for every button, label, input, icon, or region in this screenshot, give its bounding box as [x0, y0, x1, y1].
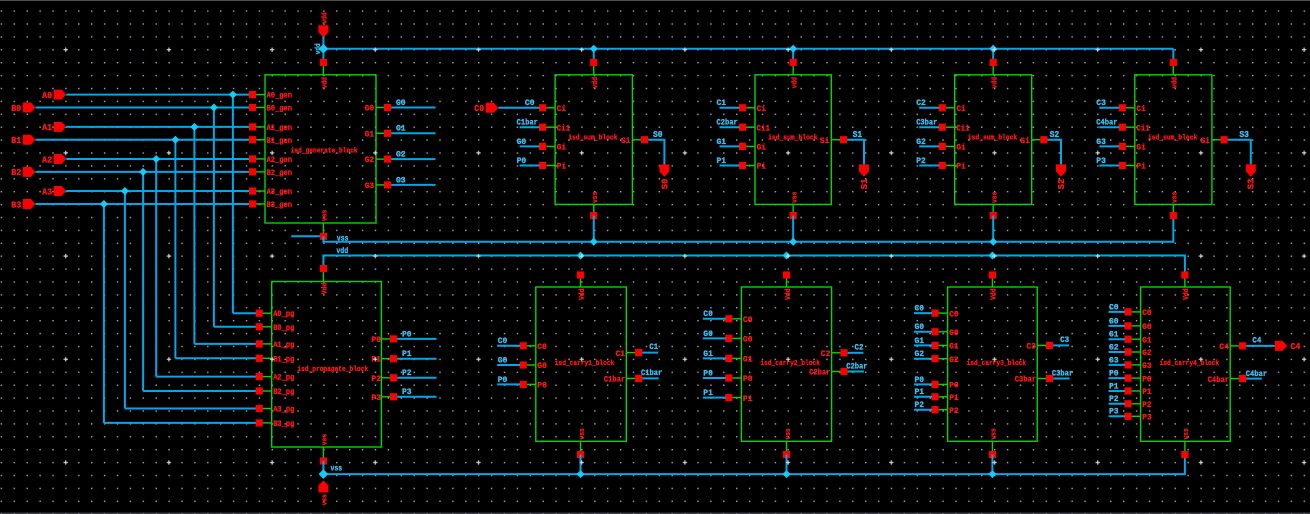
pin C4 of carry4: [1230, 345, 1239, 347]
junction bottom vss rail / carry2: [783, 470, 791, 478]
wire net G2 stub into carry3: [914, 358, 932, 360]
junction vdd rail / sum block 1: [590, 45, 598, 53]
pin C3 of carry3: [1037, 344, 1046, 346]
wire net B1 into B1_pg pin: [175, 357, 256, 359]
pin vss of propagate block: [322, 447, 324, 461]
block isd_carry3_block outline: [948, 287, 1038, 441]
pin G0 of carry2: [732, 337, 741, 339]
pin A3_pg: [259, 408, 272, 410]
junction vdd rail / carry3: [988, 252, 996, 260]
wire net C3 stub: [1053, 344, 1069, 346]
pin Gi of sum block 1: [546, 145, 555, 147]
pin A3_gen: [253, 190, 265, 192]
pin vss of carry4: [1184, 441, 1186, 454]
pin G1 of carry4: [1132, 338, 1141, 340]
pin B0_gen: [253, 107, 265, 109]
wire net B0 vertical to propagate block: [213, 108, 215, 327]
pin vdd of sum block 1: [593, 62, 595, 74]
junction bottom vss rail / carry3: [988, 470, 996, 478]
wire net C1 stub into sum block 2: [720, 107, 740, 109]
wire net A3 into A3_pg pin: [125, 408, 257, 410]
pin Si of sum block 3: [1032, 139, 1041, 141]
pin P0 of carry3: [939, 383, 948, 385]
pin G3 of generate block: [376, 184, 388, 186]
pin Ci1 of sum block 4: [1126, 126, 1135, 128]
wire net A0 horizontal: [66, 94, 249, 96]
pin C1 of carry1: [626, 352, 635, 354]
pin vss of sum block 4: [1172, 204, 1174, 215]
wire net A2 vertical to propagate block: [155, 159, 157, 377]
pin Si of sum block 2: [831, 139, 840, 141]
pin Pi of sum block 4: [1126, 165, 1135, 167]
wire net P0 stub: [397, 338, 436, 340]
input terminal B1: [23, 135, 36, 145]
input terminal B0: [23, 103, 36, 113]
output terminal C4: [1275, 341, 1288, 351]
pin Ci1 of sum block 3: [946, 126, 955, 128]
pin B2_gen: [253, 171, 265, 173]
pin P0 of carry4: [1132, 377, 1141, 379]
pin G0 of generate block: [376, 107, 388, 109]
wire net G1 stub into carry2: [703, 357, 726, 359]
wire net B0 into B0_pg pin: [214, 326, 257, 328]
pin A1_pg: [259, 343, 272, 345]
pin C0 of carry1: [527, 345, 536, 347]
pin vdd of carry1: [580, 275, 582, 287]
pin B1_gen: [253, 139, 265, 141]
wire net A1 into A1_pg pin: [194, 343, 256, 345]
junction vss rail at propagate block: [319, 469, 329, 479]
input terminal A2: [54, 154, 67, 164]
wire net S2: [1048, 140, 1062, 165]
block isd_carry1_block outline: [536, 287, 627, 441]
pin A1_gen: [253, 126, 265, 128]
wire net G1 stub into sum block 2: [720, 145, 740, 147]
pin Gi of sum block 4: [1126, 145, 1135, 147]
block isd_carry2_block outline: [741, 287, 831, 441]
input terminal A0: [54, 90, 67, 100]
wire net G0 stub into sum block 1: [520, 145, 540, 147]
block isd_generate_block outline: [265, 75, 376, 223]
pin G1 of carry3: [939, 344, 948, 346]
junction net A3: [121, 187, 129, 195]
input terminal C0: [486, 103, 499, 113]
pin vdd of carry3: [991, 275, 993, 287]
pin vss of sum block 2: [792, 204, 794, 215]
pin C4bar of carry4: [1230, 378, 1239, 380]
wire net B2 horizontal: [35, 171, 249, 173]
input terminal B2: [23, 167, 36, 177]
junction net B0: [210, 104, 218, 112]
wire vdd terminal stub: [322, 37, 324, 49]
pin B2_pg: [259, 390, 272, 392]
block isd_sum_block 1 outline: [555, 75, 632, 205]
wire net S1: [847, 140, 864, 165]
pin B3_pg: [259, 422, 272, 424]
pin C0 of carry3: [939, 312, 948, 314]
pin G2 of generate block: [376, 158, 388, 160]
wire net B1 vertical to propagate block: [174, 140, 176, 359]
pin G3 of carry4: [1132, 364, 1141, 366]
block isd_sum_block 3 outline: [955, 75, 1032, 205]
junction vss rail / sum block 2: [789, 238, 797, 246]
wire net P2 stub into carry4: [1109, 403, 1126, 405]
pin Pi of sum block 1: [546, 165, 555, 167]
wire vss stub left of pin: [291, 235, 320, 237]
pin C0 of carry4: [1132, 311, 1141, 313]
ground terminal vss (bottom): [318, 481, 328, 493]
wire net C3bar stub into sum block 3: [919, 126, 939, 128]
junction net B2: [139, 168, 147, 176]
output terminal S0: [659, 164, 669, 176]
pin P3 of carry4: [1132, 415, 1141, 417]
pin Pi of sum block 3: [946, 165, 955, 167]
wire net C1bar stub into sum block 1: [520, 126, 540, 128]
pin P2 of carry3: [939, 409, 948, 411]
pin Gi of sum block 2: [746, 145, 755, 147]
block isd_sum_block 4 outline: [1135, 75, 1212, 205]
wire net A3 vertical to propagate block: [124, 191, 126, 408]
wire net C0 stub into carry2: [703, 318, 726, 320]
block isd_propagate_block outline: [272, 282, 382, 448]
wire net B1 horizontal: [35, 139, 249, 141]
wire net B2 into B2_pg pin: [143, 390, 256, 392]
pin vdd of propagate block: [322, 269, 324, 282]
junction net B3: [100, 200, 108, 208]
wire net C1 stub: [642, 352, 658, 354]
wire net P1 stub into carry3: [914, 396, 932, 398]
pin vdd of sum block 4: [1172, 62, 1174, 74]
pin A2_pg: [259, 376, 272, 378]
wire net P0 stub into carry4: [1109, 377, 1126, 379]
pin B1_pg: [259, 357, 272, 359]
pin P0 of carry2: [732, 377, 741, 379]
wire net P1 stub into carry2: [703, 397, 726, 399]
wire net C2 stub: [848, 352, 864, 354]
wire net P3 stub: [397, 396, 436, 398]
wire net G0 stub into carry2: [703, 337, 726, 339]
pin G0 of carry4: [1132, 325, 1141, 327]
junction vdd rail / carry2: [783, 252, 791, 260]
pin vss of carry1: [580, 441, 582, 454]
junction net A2: [152, 155, 160, 163]
wire net P2 stub: [397, 377, 436, 379]
pin vss of carry2: [786, 441, 788, 454]
wire net C2bar stub into sum block 2: [720, 126, 740, 128]
wire net G3 stub into carry4: [1109, 364, 1126, 366]
pin vdd of carry2: [786, 275, 788, 287]
wire net C4bar stub into sum block 4: [1099, 126, 1119, 128]
pin Ci1 of sum block 2: [746, 126, 755, 128]
pin vdd of generate block: [322, 62, 324, 74]
junction net B1: [171, 136, 179, 144]
wire net A2 into A2_pg pin: [156, 376, 256, 378]
pin A0_pg: [259, 312, 272, 314]
pin Ci of sum block 1: [546, 107, 555, 109]
wire net S3: [1228, 140, 1251, 165]
wire net A3 horizontal: [66, 190, 249, 192]
wire net C4: [1246, 345, 1275, 347]
input terminal B3: [23, 199, 36, 209]
wire net G1 stub into carry3: [914, 344, 932, 346]
pin G2 of carry4: [1132, 351, 1141, 353]
block isd_sum_block 2 outline: [755, 75, 831, 205]
wire vss drop sum block 1: [593, 216, 595, 242]
wire vss drop carry2: [786, 455, 788, 475]
wire net C0 stub into carry3: [914, 312, 932, 314]
pin P2 of propagate block: [381, 377, 393, 379]
pin Si of sum block 4: [1212, 139, 1221, 141]
wire net B3 horizontal: [35, 203, 249, 205]
junction vss rail / sum block 3: [989, 238, 997, 246]
pin P0 of carry1: [527, 383, 536, 385]
pin P1 of carry4: [1132, 390, 1141, 392]
wire net P3 stub into carry4: [1109, 415, 1126, 417]
pin Ci of sum block 3: [946, 107, 955, 109]
pin Ci of sum block 2: [746, 107, 755, 109]
wire net A1 vertical to propagate block: [193, 127, 195, 344]
pin G0 of carry1: [527, 364, 536, 366]
wire net S0: [648, 140, 664, 165]
junction vdd rail at generate block: [319, 44, 329, 54]
pin P1 of propagate block: [381, 358, 393, 360]
wire net A2 horizontal: [66, 158, 249, 160]
pin B3_gen: [253, 203, 265, 205]
pin P1 of carry2: [732, 397, 741, 399]
wire net P1 stub: [397, 358, 436, 360]
wire vss drop carry3: [991, 455, 993, 475]
power terminal vdd (top): [318, 25, 328, 37]
pin Ci1 of sum block 1: [546, 126, 555, 128]
wire net P0 stub into carry2: [703, 377, 726, 379]
wire vdd drop to isd_generate_block: [322, 49, 324, 63]
wire vss drop carry1: [580, 455, 582, 475]
wire net B3 vertical to propagate block: [103, 204, 105, 423]
wire net C1bar stub: [642, 377, 658, 379]
pin C3bar of carry3: [1037, 378, 1046, 380]
pin P1 of carry3: [939, 396, 948, 398]
pin C2 of carry2: [832, 352, 841, 354]
junction net A0: [229, 91, 237, 99]
pin Ci of sum block 4: [1126, 107, 1135, 109]
wire net vdd rail (lower): [323, 256, 1185, 276]
wire net C0 stub into carry4: [1109, 311, 1126, 313]
pin A2_gen: [253, 158, 265, 160]
input terminal A3: [54, 186, 67, 196]
wire vdd drop to isd_sum_block 2: [792, 49, 794, 63]
pin Gi of sum block 3: [946, 145, 955, 147]
wire net G0 stub: [391, 107, 435, 109]
wire net C0 stub into carry1: [497, 345, 520, 347]
output terminal S3: [1246, 164, 1256, 176]
junction vdd rail / carry1: [577, 252, 585, 260]
pin Pi of sum block 2: [746, 165, 755, 167]
wire net P1 stub into carry4: [1109, 390, 1126, 392]
wire net vss bottom rail: [323, 455, 1185, 475]
wire net G0 stub into carry1: [497, 364, 520, 366]
pin C0 of carry2: [732, 318, 741, 320]
pin G0 of carry3: [939, 331, 948, 333]
wire net vss rail: [323, 216, 1173, 242]
wire net P0 stub into sum block 1: [520, 165, 540, 167]
wire vss drop sum block 3: [992, 216, 994, 242]
junction vdd rail / sum block 3: [989, 45, 997, 53]
wire net G3 stub: [391, 184, 435, 186]
wire net G2 stub: [391, 158, 435, 160]
wire net P0 stub into carry1: [497, 383, 520, 385]
wire net A1 horizontal: [66, 126, 249, 128]
junction bottom vss rail / carry1: [577, 470, 585, 478]
pin vss of sum block 1: [593, 204, 595, 215]
wire net B0 horizontal: [35, 107, 249, 109]
pin vdd of sum block 2: [792, 62, 794, 74]
pin vss of sum block 3: [992, 204, 994, 215]
wire vdd drop to isd_sum_block 3: [992, 49, 994, 63]
pin vss of carry3: [991, 441, 993, 454]
wire net P0 stub into carry3: [914, 383, 932, 385]
wire net P3 stub into sum block 4: [1099, 165, 1119, 167]
output terminal S1: [859, 164, 869, 176]
wire vss drop sum block 2: [792, 216, 794, 242]
wire net P1 stub into sum block 2: [720, 165, 740, 167]
pin P3 of propagate block: [381, 396, 393, 398]
wire net C3 stub into sum block 4: [1099, 107, 1119, 109]
wire net C3bar stub: [1053, 378, 1069, 380]
wire net C0 into sum block 1: [498, 107, 539, 109]
wire net B2 vertical to propagate block: [142, 172, 144, 391]
wire net G0 stub into carry3: [914, 331, 932, 333]
block isd_carry4_block outline: [1141, 287, 1231, 441]
wire net P2 stub into sum block 3: [919, 165, 939, 167]
junction vdd rail / sum block 2: [789, 45, 797, 53]
wire net G2 stub into carry4: [1109, 351, 1126, 353]
pin B0_pg: [259, 326, 272, 328]
wire net A0 into A0_pg pin: [233, 312, 257, 314]
wire net B3 into B3_pg pin: [104, 422, 257, 424]
wire vdd drop to isd_sum_block 1: [593, 49, 595, 63]
wire net G1 stub: [391, 132, 435, 134]
wire net C4bar stub: [1246, 378, 1262, 380]
wire net C2 stub into sum block 3: [919, 107, 939, 109]
pin vss of generate block: [322, 223, 324, 236]
wire net P2 stub into carry3: [914, 409, 932, 411]
wire net G2 stub into sum block 3: [919, 145, 939, 147]
pin vdd of carry4: [1184, 275, 1186, 287]
wire vdd drop to isd_sum_block 4 (corner): [1172, 49, 1174, 63]
wire net A0 vertical to propagate block: [232, 95, 234, 314]
wire vdd top rail: [323, 48, 1173, 50]
pin G2 of carry3: [939, 358, 948, 360]
pin P2 of carry4: [1132, 403, 1141, 405]
wire net G1 stub into carry4: [1109, 338, 1126, 340]
pin vdd of sum block 3: [992, 62, 994, 74]
wire net C2bar stub: [848, 371, 864, 373]
output terminal S2: [1056, 164, 1066, 176]
wire net G0 stub into carry4: [1109, 325, 1126, 327]
pin G1 of carry2: [732, 357, 741, 359]
pin C1bar of carry1: [626, 377, 635, 379]
input terminal A1: [54, 122, 67, 132]
pin C2bar of carry2: [832, 371, 841, 373]
wire net G3 stub into sum block 4: [1099, 145, 1119, 147]
junction net A1: [190, 123, 198, 131]
junction vss rail / sum block 1: [590, 238, 598, 246]
pin A0_gen: [253, 94, 265, 96]
pin G1 of generate block: [376, 132, 388, 134]
pin Si of sum block 1: [632, 139, 641, 141]
pin P0 of propagate block: [381, 338, 393, 340]
